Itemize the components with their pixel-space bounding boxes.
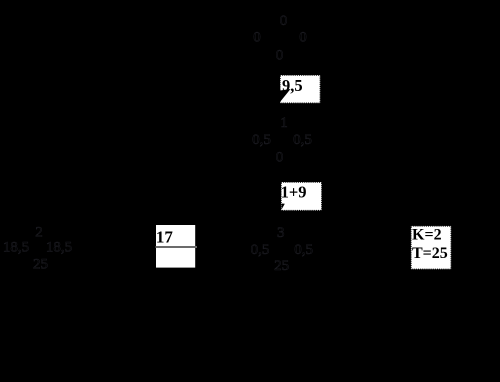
svg-text:T=25: T=25: [412, 245, 448, 262]
svg-text:0: 0: [299, 29, 307, 45]
svg-text:0,5: 0,5: [293, 132, 312, 148]
svg-text:0: 0: [276, 150, 284, 166]
svg-text:25: 25: [274, 258, 289, 274]
svg-text:K=2: K=2: [412, 227, 442, 244]
svg-text:3: 3: [277, 225, 285, 241]
svg-text:17: 17: [156, 228, 174, 247]
value box 1+9: [281, 182, 322, 211]
value box K=2 T=25: [411, 226, 451, 269]
black diagonal line tip over box 9,5 corner: [280, 89, 291, 102]
value box 17 with divider: [156, 225, 198, 268]
svg-text:1: 1: [280, 115, 288, 131]
svg-text:0,5: 0,5: [252, 132, 271, 148]
svg-text:2: 2: [35, 224, 43, 240]
black diagonal line tip over box 1+9 corner: [282, 204, 285, 209]
svg-text:0: 0: [280, 13, 288, 29]
svg-text:0,5: 0,5: [251, 242, 270, 258]
svg-text:18,5: 18,5: [46, 239, 72, 255]
svg-text:0: 0: [276, 48, 284, 64]
svg-text:25: 25: [33, 257, 48, 273]
svg-text:0: 0: [253, 29, 261, 45]
svg-text:0,5: 0,5: [294, 242, 313, 258]
svg-text:1+9: 1+9: [281, 183, 307, 202]
svg-text:18,5: 18,5: [3, 239, 29, 255]
value box 9,5: [280, 75, 320, 103]
